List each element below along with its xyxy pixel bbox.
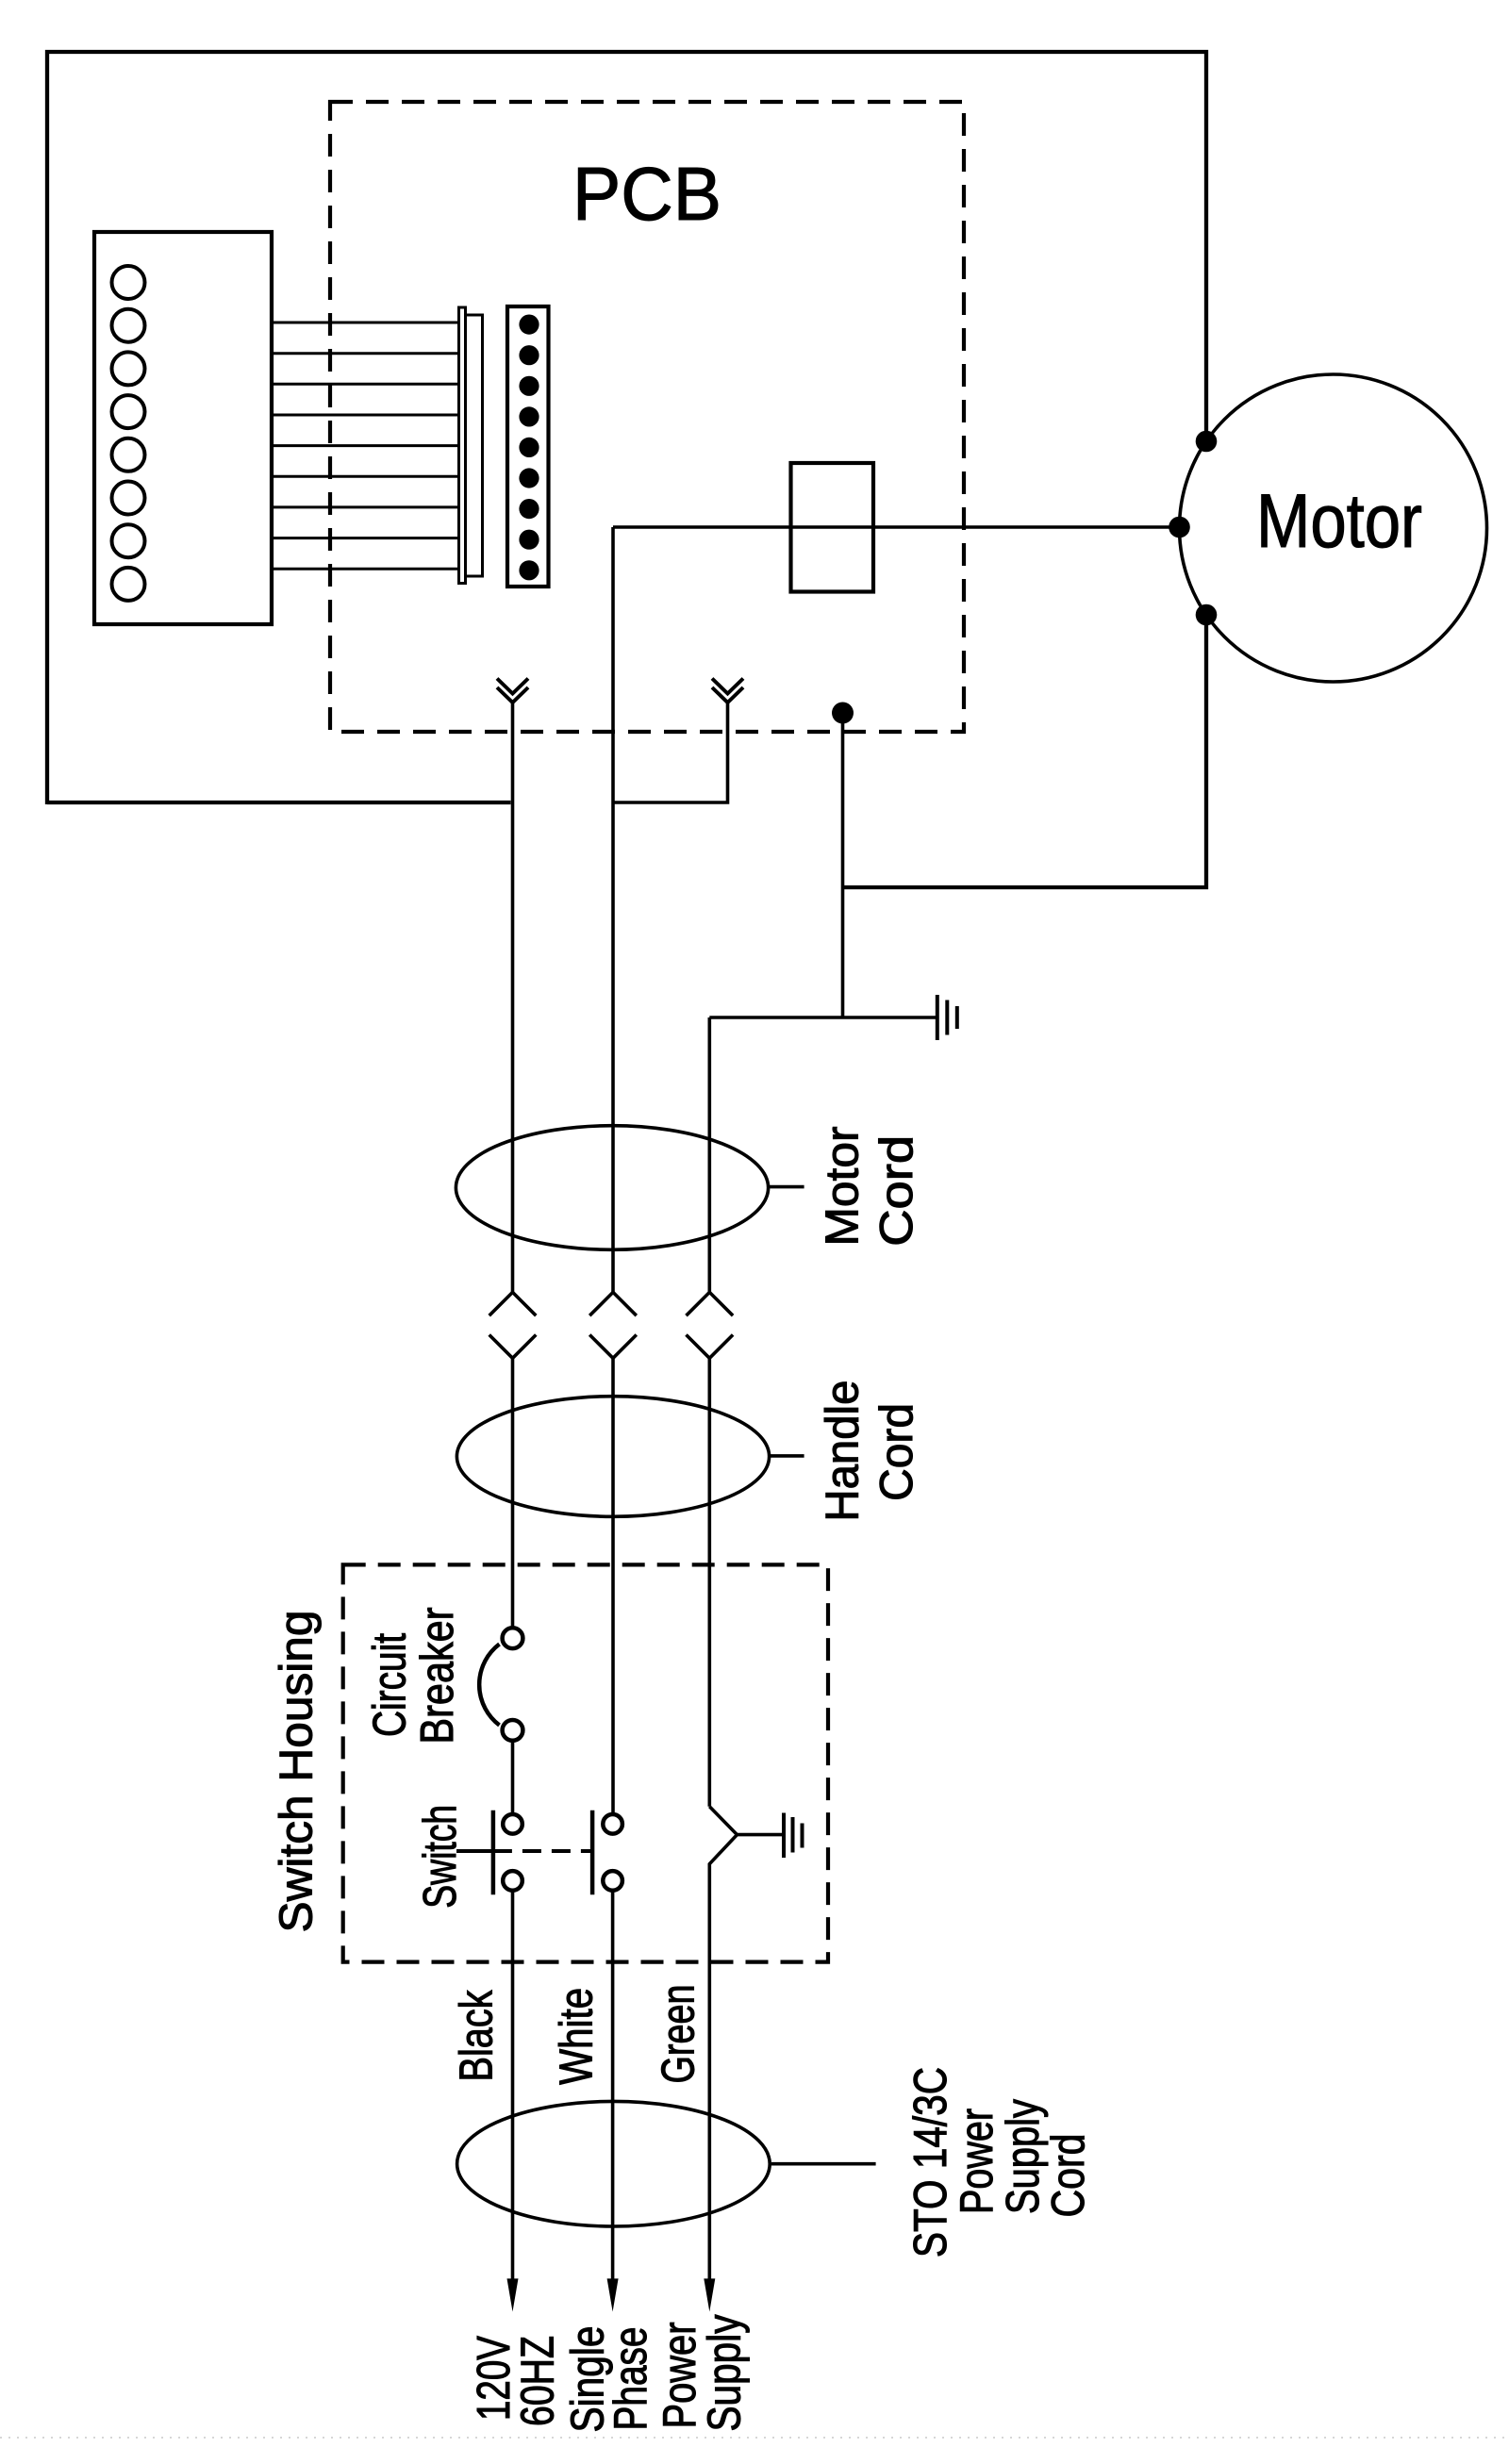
svg-text:Cord: Cord	[1043, 2134, 1094, 2218]
scan artifact line	[0, 2437, 1509, 2439]
arrow white	[607, 2278, 619, 2311]
svg-text:Breaker: Breaker	[412, 1608, 463, 1745]
pcb pin chevron black	[497, 679, 528, 703]
circuit breaker CB1	[479, 1628, 522, 1741]
terminal circles	[112, 266, 145, 601]
svg-text:Handle: Handle	[818, 1381, 869, 1522]
ribbon wires	[272, 322, 459, 569]
handle cord tick	[770, 1454, 804, 1458]
svg-text:Supply: Supply	[998, 2099, 1049, 2214]
power cord ellipse	[457, 2101, 771, 2226]
motor M1	[1180, 374, 1487, 682]
svg-text:Supply: Supply	[700, 2314, 751, 2431]
power cord tick	[771, 2162, 876, 2166]
svg-text:Motor: Motor	[1256, 479, 1422, 564]
ground symbol in switch housing	[738, 1833, 785, 1837]
svg-text:Switch Housing: Switch Housing	[272, 1611, 323, 1933]
ground symbol upper	[937, 995, 957, 1040]
svg-text:Cord: Cord	[871, 1135, 922, 1247]
svg-text:Power: Power	[952, 2108, 1003, 2214]
wire motor feed	[613, 525, 1180, 529]
handle cord ellipse	[456, 1397, 769, 1517]
motor cord ellipse	[456, 1126, 768, 1250]
svg-text:Switch: Switch	[415, 1805, 466, 1909]
connector plug bar	[459, 307, 466, 584]
pcb pin chevron white	[712, 679, 743, 703]
wire white vertical	[613, 527, 728, 2280]
switch S1	[503, 1814, 622, 1891]
svg-text:Circuit: Circuit	[365, 1633, 416, 1737]
enclosure box	[47, 52, 1206, 887]
svg-text:Power: Power	[655, 2323, 705, 2429]
switch handle	[456, 1849, 493, 1853]
wire black vertical	[511, 703, 515, 2280]
header pins	[519, 315, 539, 581]
wire green vertical	[709, 1017, 737, 2280]
svg-text:STO 14/3C: STO 14/3C	[905, 2067, 956, 2257]
inline connector diamonds	[489, 1292, 733, 1358]
PCB dashed boundary	[330, 102, 964, 732]
svg-text:Black: Black	[452, 1990, 503, 2081]
arrow green	[704, 2278, 715, 2311]
svg-text:Cord: Cord	[871, 1403, 922, 1501]
svg-text:Phase: Phase	[605, 2327, 656, 2431]
motor cord tick	[769, 1185, 804, 1189]
svg-text:Motor: Motor	[817, 1127, 868, 1247]
relay K1	[791, 463, 874, 592]
svg-text:60HZ: 60HZ	[513, 2336, 564, 2426]
junction dot motor top	[1196, 431, 1218, 453]
junction dot motor left	[1169, 517, 1190, 538]
switch housing dashed box	[343, 1564, 828, 1961]
wire green net upper	[709, 713, 1206, 1017]
svg-text:PCB: PCB	[572, 152, 721, 236]
arrow black	[507, 2278, 519, 2311]
connector plug body	[466, 315, 483, 576]
header socket strip	[507, 306, 549, 587]
junction dot motor bottom	[1196, 604, 1218, 626]
terminal block	[94, 232, 272, 624]
switch coupling dashed	[493, 1849, 592, 1853]
junction dot pcb ground	[832, 703, 854, 724]
svg-text:Green: Green	[654, 1985, 705, 2084]
svg-text:White: White	[552, 1988, 603, 2085]
